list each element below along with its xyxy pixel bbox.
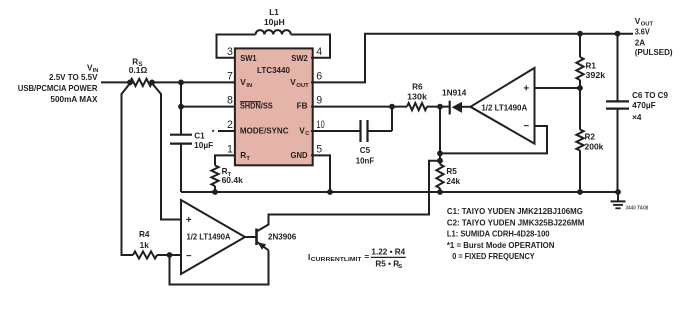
svg-text:500mA MAX: 500mA MAX xyxy=(50,95,98,104)
svg-text:60.4k: 60.4k xyxy=(222,176,244,185)
svg-text:1N914: 1N914 xyxy=(442,89,467,98)
svg-text:×4: ×4 xyxy=(632,113,642,122)
svg-text:3.6V: 3.6V xyxy=(635,27,650,36)
svg-text:−: − xyxy=(186,251,192,262)
svg-text:=: = xyxy=(364,253,369,262)
svg-text:R6: R6 xyxy=(412,83,423,92)
svg-text:9: 9 xyxy=(316,95,322,107)
svg-text:1/2 LT1490A: 1/2 LT1490A xyxy=(187,233,231,242)
svg-text:1/2 LT1490A: 1/2 LT1490A xyxy=(481,103,527,112)
svg-text:R: R xyxy=(132,57,138,66)
svg-text:OUT: OUT xyxy=(296,83,309,89)
svg-text:R1: R1 xyxy=(586,61,597,70)
svg-text:2N3906: 2N3906 xyxy=(268,232,297,241)
svg-text:5: 5 xyxy=(316,143,322,155)
svg-text:GND: GND xyxy=(291,151,308,160)
svg-text:2.5V TO 5.5V: 2.5V TO 5.5V xyxy=(49,73,98,82)
svg-text:R5 • R: R5 • R xyxy=(375,260,399,269)
svg-text:10nF: 10nF xyxy=(356,157,374,166)
svg-text:3440 TA08: 3440 TA08 xyxy=(625,205,648,211)
svg-text:+: + xyxy=(186,215,192,226)
svg-text:R4: R4 xyxy=(139,230,150,239)
svg-text:C2: TAIYO YUDEN JMK325BJ226MM: C2: TAIYO YUDEN JMK325BJ226MM xyxy=(447,218,585,227)
svg-text:10µF: 10µF xyxy=(194,141,213,150)
svg-text:SW2: SW2 xyxy=(291,54,308,63)
svg-text:C6 TO C9: C6 TO C9 xyxy=(632,91,668,100)
svg-text:8: 8 xyxy=(227,95,233,107)
svg-text:FB: FB xyxy=(297,102,308,111)
svg-text:2A: 2A xyxy=(635,38,646,47)
svg-text:R2: R2 xyxy=(585,133,596,142)
svg-text:L1: SUMIDA CDRH-4D28-100: L1: SUMIDA CDRH-4D28-100 xyxy=(447,230,550,239)
svg-text:7: 7 xyxy=(227,71,233,83)
svg-text:1: 1 xyxy=(227,143,233,155)
svg-text:3: 3 xyxy=(227,46,233,58)
svg-text:*: * xyxy=(212,130,215,137)
svg-text:*1 = Burst Mode OPERATION: *1 = Burst Mode OPERATION xyxy=(447,241,555,250)
svg-text:10: 10 xyxy=(317,119,325,131)
svg-text:R5: R5 xyxy=(446,167,457,176)
svg-text:C5: C5 xyxy=(360,146,371,155)
svg-text:CURRENTLIMIT: CURRENTLIMIT xyxy=(311,257,362,263)
svg-text:C1: TAIYO YUDEN JMK212BJ106MG: C1: TAIYO YUDEN JMK212BJ106MG xyxy=(447,207,583,216)
svg-text:2: 2 xyxy=(227,119,233,131)
svg-text:L1: L1 xyxy=(269,8,279,17)
svg-text:SW1: SW1 xyxy=(240,54,257,63)
svg-text:1.22 • R4: 1.22 • R4 xyxy=(371,248,405,257)
svg-text:4: 4 xyxy=(316,46,322,58)
svg-text:IN: IN xyxy=(246,83,252,89)
svg-text:10µH: 10µH xyxy=(264,18,285,27)
svg-text:392k: 392k xyxy=(586,71,606,80)
svg-text:LTC3440: LTC3440 xyxy=(257,66,290,75)
svg-text:MODE/SYNC: MODE/SYNC xyxy=(240,126,289,135)
svg-text:130k: 130k xyxy=(407,93,427,102)
svg-text:+: + xyxy=(523,83,529,94)
svg-text:470µF: 470µF xyxy=(632,101,656,110)
svg-text:V: V xyxy=(240,78,246,87)
svg-text:0.1Ω: 0.1Ω xyxy=(129,66,148,75)
svg-text:6: 6 xyxy=(316,71,322,83)
svg-text:V: V xyxy=(635,17,641,26)
svg-text:−: − xyxy=(523,121,529,132)
svg-text:200k: 200k xyxy=(585,143,604,152)
svg-text:R: R xyxy=(240,151,246,160)
svg-text:1k: 1k xyxy=(140,241,150,250)
svg-text:USB/PCMCIA POWER: USB/PCMCIA POWER xyxy=(18,84,98,93)
svg-text:T: T xyxy=(246,156,250,162)
svg-text:0 = FIXED FREQUENCY: 0 = FIXED FREQUENCY xyxy=(452,252,535,261)
svg-text:S: S xyxy=(398,264,402,270)
svg-text:24k: 24k xyxy=(446,177,460,186)
svg-text:SHDN/SS: SHDN/SS xyxy=(240,102,273,111)
svg-text:C1: C1 xyxy=(194,131,205,140)
svg-text:(PULSED): (PULSED) xyxy=(635,48,673,57)
